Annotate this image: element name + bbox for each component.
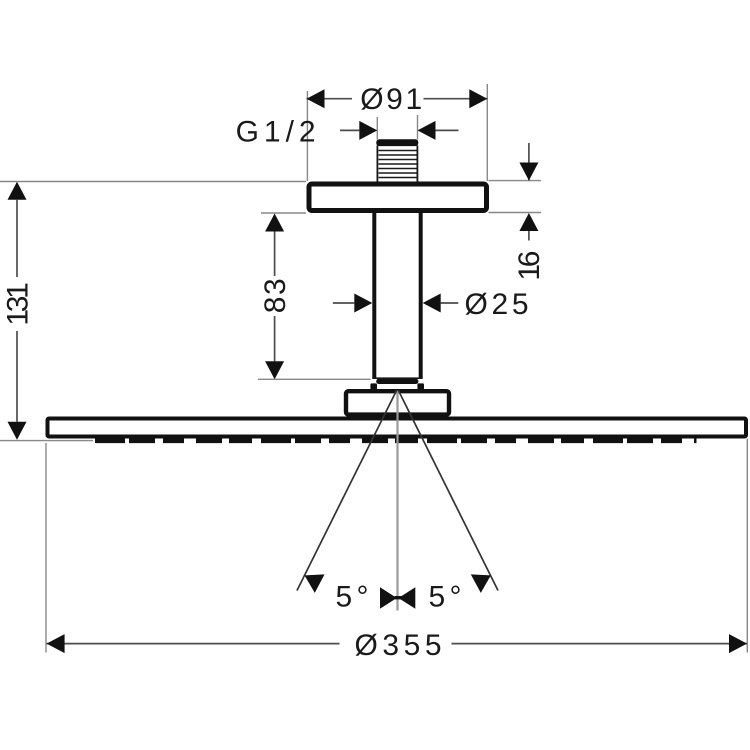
dim 131 extension bottom <box>0 440 93 442</box>
dim 16 extension top <box>489 180 542 182</box>
collar white band <box>371 384 423 389</box>
dim G12 extension right <box>417 115 419 140</box>
dim G12 arrow left <box>359 121 377 140</box>
svg-text:G1/2: G1/2 <box>236 116 316 149</box>
dim 83 extension top <box>261 212 306 214</box>
dim 16 arrow up <box>519 213 538 231</box>
collar left cap <box>370 383 377 389</box>
bowtie left triangle <box>380 587 397 608</box>
thread side walls <box>377 146 417 182</box>
pipe right wall <box>419 213 423 378</box>
dim 83 arrow bottom <box>265 361 284 379</box>
spray right line <box>398 390 498 591</box>
dim 83 extension bottom <box>258 378 371 380</box>
dim 131 arrow top <box>8 182 27 200</box>
dim 83 line lower <box>274 316 276 361</box>
nozzle dashes <box>95 438 697 443</box>
dim O25 leader right <box>441 302 459 304</box>
thread hatch lines <box>379 151 417 178</box>
connector block <box>346 391 449 414</box>
dim O355 extension left <box>45 443 47 653</box>
dim G12 leader left <box>340 129 359 131</box>
dim G12 leader right <box>436 129 459 131</box>
svg-text:Ø25: Ø25 <box>465 288 529 321</box>
svg-text:83: 83 <box>259 278 292 313</box>
dim O91 line right <box>424 98 488 100</box>
dim O91 extension right <box>486 84 488 181</box>
dim O355 arrow left <box>47 634 65 653</box>
pipe left wall <box>372 213 376 378</box>
dim O355 arrow right <box>729 634 747 653</box>
svg-text:5°: 5° <box>429 581 462 614</box>
svg-text:Ø91: Ø91 <box>360 83 422 116</box>
dim 83 line upper <box>274 232 276 277</box>
pipe bottom edge <box>372 377 422 379</box>
dim G12 extension left <box>376 117 378 140</box>
dim 131 line lower <box>16 331 18 422</box>
svg-text:Ø355: Ø355 <box>355 629 442 662</box>
dim G12 arrow right <box>418 121 436 140</box>
dim 16 line top <box>528 143 530 181</box>
dim O355 line left <box>47 643 340 645</box>
dim O91 arrow right <box>469 89 487 108</box>
svg-text:131: 131 <box>2 282 35 326</box>
spray right arrowhead <box>471 574 491 593</box>
gasket bar <box>376 379 418 384</box>
svg-text:16: 16 <box>513 251 546 281</box>
dim O25 arrow right <box>423 294 441 313</box>
thread cap <box>376 139 418 146</box>
bowtie center bar <box>395 596 402 599</box>
dim O355 line right <box>452 643 748 645</box>
spray left line <box>297 390 397 591</box>
dim O91 extension left <box>306 91 308 181</box>
dim 131 line upper <box>16 200 18 277</box>
shower head plate <box>48 419 747 437</box>
dim 131 arrow bottom <box>8 422 27 440</box>
dim O91 line left <box>307 98 353 100</box>
svg-text:5°: 5° <box>336 581 369 614</box>
dim O25 leader left <box>333 302 355 304</box>
dim 131 extension top <box>0 181 306 183</box>
bowtie right triangle <box>399 587 416 608</box>
dim 16 arrow down <box>519 163 538 181</box>
collar right cap <box>417 383 424 389</box>
dim O355 extension right <box>746 439 748 653</box>
spray left arrowhead <box>305 574 325 593</box>
dim 16 line bottom <box>528 231 530 241</box>
dim O25 arrow left <box>354 294 372 313</box>
spray center line <box>396 391 398 611</box>
dim 83 arrow top <box>265 214 284 232</box>
dim 16 extension bottom <box>489 212 542 214</box>
escutcheon ceiling plate <box>309 184 487 211</box>
dim O91 arrow left <box>307 89 325 108</box>
